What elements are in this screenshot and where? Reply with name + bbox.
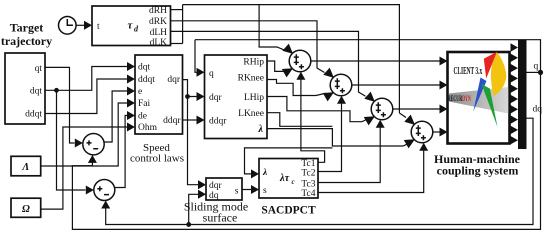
svg-text:RKnee: RKnee <box>238 74 264 84</box>
svg-text:RHip: RHip <box>243 58 264 68</box>
sum junction 3 <box>371 98 393 120</box>
wire q feedback top line <box>72 40 540 230</box>
junction dot q <box>538 70 543 75</box>
label Speed control laws <box>130 142 184 165</box>
yellow wedge <box>491 52 506 96</box>
svg-text:e: e <box>138 87 142 97</box>
block speed control laws <box>135 55 183 134</box>
green blade <box>482 84 498 127</box>
wire sum4 out to client <box>433 128 448 137</box>
clock source <box>59 17 77 35</box>
wire Tc4 to sum4 bottom <box>318 143 428 193</box>
svg-text:Tc3: Tc3 <box>301 179 315 189</box>
sum junction B (de = dqt - dq) <box>94 180 115 201</box>
wire Omega to Ohm input <box>41 123 135 210</box>
wire Tc1 to sum1 bottom <box>296 72 324 163</box>
label Target trajectory <box>1 21 52 49</box>
svg-text:RECURDYN: RECURDYN <box>448 95 471 104</box>
mux bar <box>518 40 527 149</box>
wire Tc3 to sum3 bottom <box>318 120 385 183</box>
sum junction 1 <box>289 50 311 72</box>
svg-text:trajectory: trajectory <box>1 34 52 48</box>
svg-text:dRK: dRK <box>149 17 167 27</box>
svg-text:s: s <box>235 187 239 197</box>
svg-text:CLIENT 3.x: CLIENT 3.x <box>453 64 482 77</box>
wire ddqr to block <box>183 116 205 125</box>
svg-text:dqr: dqr <box>209 93 223 103</box>
arrow into sumA minus <box>88 155 97 163</box>
wire sum3 out to client <box>393 105 448 114</box>
svg-text:dqt: dqt <box>138 63 151 73</box>
svg-text:Ohm: Ohm <box>138 123 158 133</box>
label Human-machine coupling system <box>434 152 521 178</box>
svg-text:s: s <box>263 186 267 196</box>
svg-text:LKnee: LKnee <box>238 109 264 119</box>
svg-text:ddqt: ddqt <box>25 110 42 120</box>
svg-text:dq: dq <box>533 105 543 115</box>
wire q output from mux <box>527 71 541 73</box>
block target trajectory generator <box>5 53 45 124</box>
wire sum2 out to client <box>352 81 448 90</box>
svg-text:t: t <box>97 22 100 32</box>
block taud (desired torque trajectories) <box>92 6 171 48</box>
wire dqr to block and sliding surface <box>183 80 207 190</box>
svg-text:SACDPCT: SACDPCT <box>261 205 316 217</box>
svg-text:qt: qt <box>35 64 43 74</box>
svg-text:dqr: dqr <box>209 181 223 191</box>
svg-text:dqt: dqt <box>30 87 43 97</box>
svg-text:Tc4: Tc4 <box>301 189 315 199</box>
mux arrows client outputs <box>511 43 519 144</box>
wire LKnee to sum4 (joins lambda riser) <box>267 113 332 127</box>
wire vertical join at 182.6 <box>182 5 184 44</box>
svg-text:Ω: Ω <box>22 204 30 215</box>
wire sum1 out to client <box>311 57 448 66</box>
wire s to SACDPCT <box>242 185 259 194</box>
wire dLH to sum3 <box>171 31 375 102</box>
svg-text:control laws: control laws <box>130 153 184 165</box>
wire ddqt to speed block <box>45 75 135 114</box>
svg-text:dLK: dLK <box>150 38 168 48</box>
wire dRK to sum2 <box>171 21 334 78</box>
red blade <box>484 52 497 79</box>
svg-text:ddqr: ddqr <box>209 117 227 127</box>
svg-text:q: q <box>209 69 214 79</box>
svg-text:Λ: Λ <box>21 162 29 173</box>
wire lambda out, riser to sum4 and branch to SACDPCT <box>245 129 415 179</box>
svg-text:dRH: dRH <box>149 6 167 16</box>
sum junction 4 <box>411 121 433 143</box>
block client RecurDyn (human-machine coupling system) <box>448 52 510 144</box>
blue blade <box>473 78 486 112</box>
svg-text:q: q <box>534 62 539 72</box>
wire top line A to sum4 and branch to sum1 <box>183 5 415 125</box>
wire dq output from mux, feedback bottom <box>101 118 533 227</box>
block sliding mode surface <box>206 178 242 201</box>
block Omega <box>11 198 41 217</box>
wire Lambda to Fai input <box>41 99 135 167</box>
svg-text:coupling system: coupling system <box>437 164 519 178</box>
block Lambda <box>11 156 41 176</box>
wire RKnee to sum2 <box>267 80 334 102</box>
svg-text:Target: Target <box>10 21 44 35</box>
block torque computation (q,dqr,ddqr -> joints) <box>205 55 268 139</box>
svg-text:Tc2: Tc2 <box>301 168 315 178</box>
wire q feedback into q input <box>195 40 205 77</box>
wire dLK stub <box>171 43 183 45</box>
svg-text:λ: λ <box>262 168 267 178</box>
svg-text:ddqr: ddqr <box>163 116 181 126</box>
svg-text:λ: λ <box>258 124 264 135</box>
wire sumB out to de input <box>115 111 135 188</box>
wire clock to tau block <box>76 21 92 30</box>
svg-text:dqr: dqr <box>167 75 181 85</box>
wire dqt to speed block with branch to sumB <box>45 62 135 195</box>
wire sumA out to e input <box>104 87 135 143</box>
svg-text:λτ: λτ <box>279 173 290 184</box>
svg-text:surface: surface <box>203 211 238 225</box>
block SACDPCT <box>259 159 318 199</box>
svg-text:ddqt: ddqt <box>138 75 155 85</box>
svg-text:c: c <box>292 178 295 186</box>
wire dRH stub <box>171 9 183 11</box>
wire RHip to sum1 <box>267 61 293 77</box>
wire qt to sumA <box>45 67 83 147</box>
sum junction A (e = qt - q) <box>83 134 104 155</box>
wire LHip to sum3 <box>267 97 375 126</box>
svg-text:LHip: LHip <box>244 93 264 103</box>
svg-text:Fai: Fai <box>138 99 151 109</box>
wire Tc2 to sum2 bottom <box>318 96 346 172</box>
sum junction 2 <box>330 74 352 96</box>
svg-text:dLH: dLH <box>150 28 168 38</box>
label Sliding mode surface <box>184 200 248 225</box>
svg-text:de: de <box>138 112 147 122</box>
